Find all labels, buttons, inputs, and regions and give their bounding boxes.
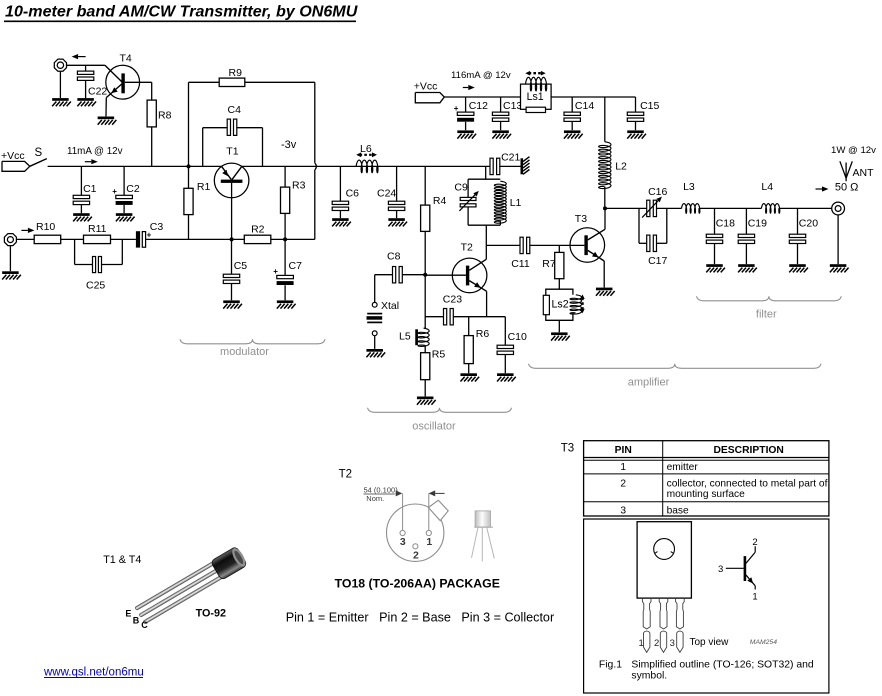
resistor R6	[464, 317, 489, 374]
switch S	[30, 147, 47, 166]
arrow	[463, 85, 475, 90]
variable capacitor C16	[642, 186, 667, 218]
connector J2 (top-left)	[54, 59, 66, 71]
crystal Xtal	[367, 275, 400, 349]
ground	[52, 98, 71, 106]
resistor R11	[84, 223, 111, 244]
svg-text:54 (0.100): 54 (0.100)	[364, 485, 399, 494]
svg-text:DESCRIPTION: DESCRIPTION	[714, 445, 784, 456]
lead labels E B C	[125, 609, 148, 630]
ground	[98, 117, 117, 125]
capacitor C10	[497, 317, 527, 374]
capacitor C12	[454, 97, 488, 130]
node (rail/R1/R9)	[187, 164, 191, 168]
capacitor C22	[77, 65, 107, 98]
resistor R2	[244, 224, 270, 244]
wire (R9 to base node, hop over rail)	[245, 82, 317, 239]
capacitor C11	[486, 237, 559, 270]
svg-text:Simplified outline (TO-126; SO: Simplified outline (TO-126; SOT32) and	[631, 660, 814, 671]
svg-text:2: 2	[654, 638, 659, 649]
capacitor C17 (parallel loop)	[639, 208, 668, 267]
svg-text:C7: C7	[289, 260, 303, 272]
svg-text:C5: C5	[234, 260, 248, 272]
TO18 side view	[472, 511, 495, 562]
ground	[738, 264, 757, 272]
svg-text:+: +	[454, 104, 459, 113]
label 50 ohm	[835, 182, 859, 194]
svg-text:R7: R7	[542, 258, 556, 270]
wire	[9, 246, 11, 271]
svg-text:R4: R4	[433, 195, 447, 207]
wire	[60, 65, 105, 98]
svg-text:T3: T3	[561, 442, 574, 454]
svg-text:R11: R11	[88, 223, 107, 235]
label T3 (table)	[561, 442, 574, 454]
wire (rail to R4)	[424, 166, 426, 205]
wire (T2 collector)	[485, 225, 487, 259]
ground	[830, 264, 849, 272]
ground	[223, 300, 242, 308]
svg-text:C13: C13	[503, 100, 522, 112]
svg-text:+: +	[112, 187, 117, 196]
label T1 & T4	[103, 554, 141, 566]
svg-text:C12: C12	[469, 100, 488, 112]
svg-text:L4: L4	[761, 181, 773, 193]
svg-text:www.qsl.net/on6mu: www.qsl.net/on6mu	[43, 667, 144, 679]
svg-text:C2: C2	[126, 183, 140, 195]
label -3v	[281, 139, 297, 151]
ground	[706, 264, 725, 272]
table pin description	[584, 441, 829, 517]
ground	[596, 288, 615, 296]
capacitor C25 (bypass loop)	[75, 239, 123, 291]
svg-text:L1: L1	[510, 197, 522, 209]
svg-text:T2: T2	[339, 468, 352, 480]
wire (T3 base)	[559, 244, 584, 246]
svg-text:C19: C19	[748, 218, 767, 230]
variable capacitor C9	[454, 182, 478, 211]
svg-text:C16: C16	[648, 186, 667, 198]
wire Vcc rail 2	[444, 96, 635, 98]
capacitor C15	[627, 97, 659, 130]
ground	[497, 373, 516, 381]
node (R3/C7)	[283, 237, 287, 241]
svg-text:L5: L5	[399, 330, 411, 342]
ground	[2, 271, 21, 279]
chassis ground	[522, 157, 530, 175]
title	[4, 3, 358, 22]
capacitor C8	[375, 251, 426, 283]
svg-text:TO-92: TO-92	[196, 607, 226, 619]
label 11mA @ 12v	[67, 146, 123, 157]
svg-text:R8: R8	[158, 110, 172, 122]
wire	[125, 82, 152, 100]
label TO18 (TO-206AA) PACKAGE	[335, 576, 500, 590]
wire	[558, 320, 560, 332]
wire (C23 row)	[425, 316, 443, 318]
svg-text:mounting surface: mounting surface	[667, 489, 745, 500]
coil Ls1	[521, 71, 552, 113]
label TO-92	[196, 607, 226, 619]
TO18 package top view	[387, 493, 449, 561]
capacitor C14	[564, 97, 594, 130]
svg-text:-3v: -3v	[281, 139, 297, 151]
+Vcc supply tag (PA)	[414, 81, 445, 103]
inductor L2	[599, 97, 627, 208]
svg-text:R5: R5	[432, 348, 446, 360]
svg-text:C10: C10	[508, 331, 527, 343]
resistor R9	[219, 67, 245, 86]
wire	[453, 316, 505, 318]
ground	[116, 213, 135, 221]
brace oscillator	[368, 408, 512, 433]
label 116mA @ 12v	[451, 70, 511, 81]
brace amplifier	[529, 364, 822, 389]
svg-text:C18: C18	[716, 218, 735, 230]
label pin assignments	[286, 610, 554, 624]
wire (base row)	[184, 238, 244, 240]
svg-text:C25: C25	[86, 279, 105, 291]
wire	[271, 238, 315, 240]
arrow	[85, 159, 98, 164]
ground	[627, 130, 646, 138]
svg-text:L2: L2	[615, 161, 627, 173]
ground	[366, 349, 385, 357]
svg-text:R2: R2	[251, 224, 265, 236]
wire (T3 collector)	[604, 208, 606, 229]
svg-text:116mA @ 12v: 116mA @ 12v	[451, 70, 511, 81]
resistor R5	[421, 345, 446, 396]
wire (T2 emitter)	[486, 291, 488, 316]
wire	[657, 207, 682, 209]
svg-text:Fig.1: Fig.1	[599, 660, 622, 671]
svg-text:C4: C4	[228, 104, 242, 116]
wire	[424, 275, 426, 328]
ground	[564, 130, 583, 138]
svg-text:R3: R3	[292, 180, 306, 192]
ground	[789, 264, 808, 272]
svg-text:3: 3	[718, 564, 723, 575]
resistor R8	[147, 100, 171, 166]
wire	[837, 215, 839, 264]
ground	[460, 373, 479, 381]
svg-text:C15: C15	[640, 100, 659, 112]
svg-text:1: 1	[639, 638, 644, 649]
arrow	[816, 186, 829, 191]
svg-text:Top view: Top view	[690, 637, 730, 648]
svg-text:C23: C23	[443, 294, 462, 306]
svg-text:C11: C11	[511, 258, 530, 270]
svg-text:PIN: PIN	[615, 445, 632, 456]
capacitor C19	[738, 208, 767, 264]
svg-text:C6: C6	[346, 187, 360, 199]
link www.qsl.net/on6mu	[43, 667, 144, 679]
transistor T4	[105, 53, 140, 117]
capacitor C23	[443, 294, 462, 325]
ground	[457, 130, 476, 138]
resistor R4	[421, 195, 447, 275]
capacitor C1	[73, 166, 96, 213]
svg-text:R1: R1	[197, 181, 211, 193]
svg-text:T1: T1	[226, 146, 238, 158]
svg-text:10-meter band AM/CW Transmitte: 10-meter band AM/CW Transmitter, by ON6M…	[5, 3, 358, 21]
svg-text:C24: C24	[377, 187, 396, 199]
node (L2/T3/filter)	[603, 206, 607, 210]
svg-text:R6: R6	[476, 328, 490, 340]
wire (filter row)	[605, 207, 646, 209]
svg-text:TO18 (TO-206AA) PACKAGE: TO18 (TO-206AA) PACKAGE	[335, 576, 500, 590]
inductor L1	[494, 181, 521, 225]
svg-text:C8: C8	[387, 251, 401, 263]
svg-text:oscillator: oscillator	[412, 421, 456, 433]
capacitor C4	[203, 104, 263, 166]
ground	[492, 130, 511, 138]
svg-text:R10: R10	[36, 221, 55, 233]
svg-text:T1 & T4: T1 & T4	[103, 554, 141, 566]
label T2 (package)	[339, 468, 352, 480]
inductor L5	[399, 328, 429, 346]
TO-126 outline drawing	[637, 522, 777, 653]
svg-text:3: 3	[620, 505, 626, 516]
transistor T1	[214, 146, 249, 240]
svg-text:T3: T3	[575, 213, 587, 225]
figure box	[584, 519, 829, 693]
svg-text:2: 2	[620, 479, 626, 490]
+Vcc supply tag	[1, 150, 30, 171]
svg-text:S: S	[35, 147, 43, 159]
brace modulator	[180, 339, 325, 358]
resistor R10	[34, 221, 61, 243]
svg-text:E: E	[125, 609, 131, 619]
svg-text:+Vcc: +Vcc	[414, 81, 438, 93]
capacitor C24	[377, 166, 405, 218]
svg-text:Nom.: Nom.	[366, 494, 384, 503]
antenna symbol	[840, 161, 874, 181]
resistor R1	[184, 166, 211, 239]
svg-text:C3: C3	[150, 221, 164, 233]
svg-text:2: 2	[413, 549, 419, 561]
coil Ls2	[543, 289, 584, 320]
wire	[699, 207, 761, 209]
svg-text:C22: C22	[88, 85, 107, 97]
svg-text:R9: R9	[229, 67, 243, 79]
svg-text:Ls2: Ls2	[552, 299, 569, 311]
svg-text:amplifier: amplifier	[628, 377, 670, 389]
capacitor C13	[492, 97, 522, 130]
svg-text:+: +	[273, 267, 278, 276]
connector J3 (antenna out)	[832, 202, 845, 215]
svg-text:C17: C17	[648, 255, 667, 267]
svg-text:C21: C21	[501, 151, 520, 163]
TO-92 package drawing	[134, 546, 248, 626]
svg-text:T4: T4	[120, 53, 132, 65]
svg-text:MAM254: MAM254	[750, 639, 777, 646]
transistor T2	[425, 242, 487, 293]
svg-text:3: 3	[670, 638, 675, 649]
svg-text:3: 3	[400, 536, 406, 548]
wire	[17, 238, 34, 240]
capacitor C3	[136, 221, 184, 248]
svg-text:C1: C1	[83, 183, 97, 195]
inductor L4	[761, 181, 779, 213]
svg-text:emitter: emitter	[667, 462, 699, 473]
svg-text:1: 1	[752, 592, 757, 603]
svg-text:base: base	[667, 505, 689, 516]
capacitor C20	[789, 208, 818, 264]
svg-text:T2: T2	[461, 242, 473, 254]
wire (T3 emitter)	[603, 261, 605, 288]
node (T1 base)	[230, 237, 234, 241]
svg-text:11mA @ 12v: 11mA @ 12v	[67, 146, 123, 157]
ground	[77, 98, 96, 106]
svg-text:L6: L6	[360, 143, 372, 155]
label 1W @ 12v	[831, 145, 876, 156]
ground	[277, 300, 296, 308]
capacitor C21	[490, 151, 521, 174]
capacitor C6	[332, 166, 359, 218]
transistor T3	[570, 213, 605, 262]
wire +Vcc rail	[48, 165, 222, 167]
capacitor C7	[273, 239, 302, 300]
ground	[551, 332, 570, 340]
svg-text:modulator: modulator	[220, 346, 269, 358]
svg-text:1W @ 12v: 1W @ 12v	[831, 145, 876, 156]
svg-text:B: B	[133, 615, 140, 625]
svg-text:50 Ω: 50 Ω	[835, 182, 859, 194]
ground	[388, 218, 407, 226]
capacitor C18	[706, 208, 735, 264]
svg-text:symbol.: symbol.	[631, 671, 667, 682]
svg-text:C9: C9	[454, 182, 468, 194]
wire	[468, 166, 500, 225]
svg-text:1: 1	[426, 536, 432, 548]
svg-text:1: 1	[620, 462, 626, 473]
inductor L3	[682, 181, 700, 213]
inductor L6	[356, 143, 378, 173]
capacitor C5	[223, 239, 247, 300]
wire	[61, 238, 84, 240]
svg-text:C: C	[141, 620, 148, 630]
wire	[189, 82, 220, 166]
svg-text:C14: C14	[575, 100, 594, 112]
svg-text:L3: L3	[683, 181, 695, 193]
brace filter	[697, 296, 842, 320]
svg-text:Xtal: Xtal	[381, 300, 399, 312]
svg-text:Ls1: Ls1	[527, 91, 544, 103]
svg-text:filter: filter	[756, 309, 777, 321]
node (T2 base)	[423, 273, 427, 277]
fig caption	[599, 660, 814, 682]
transistor symbol (fig.1)	[718, 537, 758, 603]
wire	[779, 207, 832, 209]
connector J1 (audio in)	[4, 234, 16, 246]
arrow	[21, 228, 34, 233]
svg-text:ANT: ANT	[853, 167, 875, 179]
ground	[73, 213, 92, 221]
wire rail (T1 collector side)	[242, 165, 490, 167]
svg-text:Pin 1 = Emitter Pin 2 = Base: Pin 1 = Emitter Pin 2 = Base Pin 3 = Col…	[286, 610, 554, 624]
dimension 54 (0.100) Nom.	[364, 485, 445, 503]
ground	[332, 218, 351, 226]
arrow (keying)	[72, 54, 86, 59]
wire	[111, 238, 136, 240]
svg-text:+Vcc: +Vcc	[1, 150, 25, 162]
svg-text:2: 2	[752, 537, 757, 548]
ground	[417, 397, 436, 405]
capacitor C2	[112, 166, 140, 213]
resistor R3	[281, 166, 306, 239]
svg-text:C20: C20	[799, 218, 818, 230]
resistor R7	[542, 245, 564, 289]
